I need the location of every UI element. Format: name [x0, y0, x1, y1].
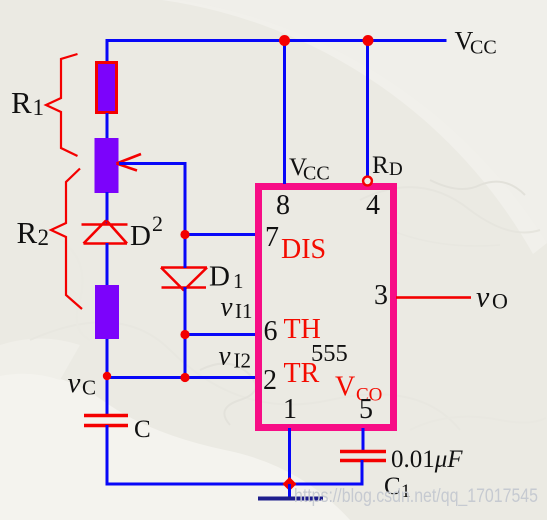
wire: pin 8 vertical [283, 40, 286, 184]
svg-text:https://blog.csdn.net/qq_17017: https://blog.csdn.net/qq_17017545 [294, 486, 538, 507]
node: junction D1 branch / pin2 [180, 373, 189, 382]
svg-text:TR: TR [284, 358, 320, 389]
svg-text:TH: TH [284, 314, 321, 345]
potentiometer wiper arrow [117, 154, 142, 171]
svg-text:7: 7 [265, 222, 279, 253]
terminal: RD open circle [363, 177, 372, 186]
svg-text:I2: I2 [234, 349, 252, 373]
wire: wiper horizontal [119, 162, 186, 165]
svg-text:R: R [11, 85, 32, 120]
svg-text:3: 3 [374, 280, 388, 311]
node: junction VCC rail / pin4 [363, 35, 374, 46]
wire: wiper branch vertical down to pin7 node [184, 162, 187, 236]
node: junction at wiper/D1/pin7 [180, 230, 189, 239]
node: junction VCC rail / pin8 [279, 35, 290, 46]
svg-text:O: O [492, 289, 508, 314]
svg-text:v: v [219, 341, 231, 371]
wire: C1 bottom to bottom rail [361, 460, 364, 485]
svg-text:v: v [68, 367, 81, 399]
svg-text:I1: I1 [235, 299, 253, 323]
svg-text:4: 4 [366, 190, 380, 221]
svg-text:R: R [372, 152, 389, 179]
ground [258, 497, 323, 501]
svg-text:D: D [130, 220, 151, 252]
svg-text:D: D [209, 261, 230, 293]
potentiometer RP body [95, 138, 119, 193]
wire: pot to D2 [106, 192, 109, 225]
wire: pin 7 horizontal [185, 233, 258, 236]
svg-text:2: 2 [38, 225, 50, 250]
svg-text:DIS: DIS [281, 234, 326, 265]
resistor R2 lower body [95, 285, 119, 339]
svg-text:2: 2 [263, 365, 277, 396]
svg-text:C: C [134, 416, 151, 443]
brace R2 [51, 169, 82, 310]
wire: D1 bottom down to pin2 line [184, 287, 187, 378]
wire: R1 to pot [106, 113, 109, 139]
brace R1 [46, 54, 78, 156]
wire: R2 body down to vC node [106, 339, 109, 416]
svg-text:2: 2 [152, 211, 163, 236]
svg-text:v: v [476, 281, 490, 314]
diode D2 (pointing up) [82, 221, 128, 244]
wire: bottom rail [106, 483, 364, 486]
svg-text:CC: CC [470, 37, 497, 59]
node: vC junction [103, 372, 111, 380]
wire: cap C bottom to ground rail [106, 425, 109, 485]
wire: pin 1 vertical [288, 428, 291, 485]
diode D1 (pointing down) [161, 268, 207, 291]
node: junction at D1 branch / pin6 [180, 330, 189, 339]
wire: left branch top segment [106, 39, 109, 63]
wire: pin 6 horizontal [185, 333, 258, 336]
svg-text:1: 1 [283, 394, 297, 425]
svg-text:C: C [82, 376, 96, 400]
svg-text:6: 6 [264, 316, 278, 347]
svg-text:R: R [17, 215, 38, 250]
svg-text:1: 1 [33, 95, 45, 120]
svg-text:V: V [335, 372, 355, 403]
wire: pin 5 vertical to C1 [362, 428, 365, 452]
wire: D1 branch (node to D1 top) [184, 236, 187, 268]
wire: D2 to R2 lower body [106, 243, 109, 286]
wire: VCC top rail [106, 39, 447, 42]
svg-text:1: 1 [233, 269, 244, 293]
svg-text:v: v [221, 292, 233, 322]
capacitor C [84, 416, 128, 426]
wire: pin 2 horizontal [106, 376, 258, 379]
svg-text:D: D [389, 159, 403, 180]
wire: ground stub [288, 484, 291, 498]
wire: pin 4 vertical [366, 40, 369, 176]
svg-text:8: 8 [276, 190, 290, 221]
wire: pin 3 output (red) [396, 296, 471, 299]
svg-text:CC: CC [303, 163, 330, 185]
capacitor C1 [340, 452, 386, 461]
resistor R1 [97, 63, 117, 113]
node: bottom junction (diamond) [283, 477, 297, 491]
IC 555 box [259, 187, 394, 428]
svg-text:0.01μF: 0.01μF [391, 446, 463, 473]
svg-text:5: 5 [359, 394, 373, 425]
